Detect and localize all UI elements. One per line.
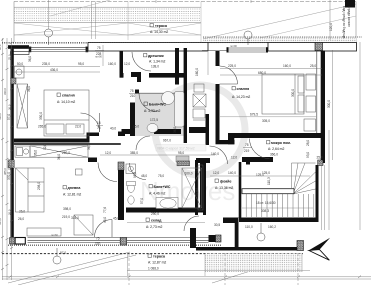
bathroom2 right wall [200, 160, 205, 212]
terrace left edge [13, 2, 15, 43]
svg-text:0804 С-карол 317,59 м2: 0804 С-карол 317,59 м2 [157, 147, 195, 151]
svg-text:590,0: 590,0 [0, 113, 2, 120]
svg-text:160,0: 160,0 [195, 68, 199, 76]
svg-text:140,0: 140,0 [228, 171, 236, 175]
dashed boundary line right section [203, 36, 362, 38]
bath2 door arc [130, 163, 147, 180]
svg-text:12,0: 12,0 [213, 171, 219, 175]
wet room wall corner [246, 161, 250, 165]
svg-text:пот60: пот60 [51, 233, 58, 237]
top wall hollow band left-mid [88, 43, 208, 52]
bottom pier right solid [209, 235, 216, 242]
svg-text:57,0: 57,0 [7, 114, 11, 120]
terrace strip upper line [14, 6, 201, 8]
closet door arc [132, 52, 151, 71]
svg-text:12,0: 12,0 [231, 156, 237, 160]
left outer wall [11, 49, 14, 237]
svg-text:36,0: 36,0 [87, 144, 91, 150]
wardrobe bedroom1 with X [17, 84, 28, 128]
stair railing bar [242, 189, 294, 194]
bottom-left outlined block [15, 238, 25, 245]
hatched column top right [315, 43, 323, 51]
svg-text:210: 210 [130, 94, 136, 98]
svg-text:30,5: 30,5 [214, 223, 220, 227]
bathroom2 / sklad wall [126, 208, 206, 213]
svg-text:298,0: 298,0 [37, 182, 41, 190]
terrace south wall [196, 247, 303, 251]
bedroom2 bottom wall [228, 133, 323, 138]
svg-text:225,0: 225,0 [228, 64, 236, 68]
svg-text:1 088,0: 1 088,0 [148, 267, 159, 271]
step at bedroom2 SW [228, 133, 234, 144]
svg-text:A: 3,33 m2: A: 3,33 m2 [144, 109, 161, 113]
svg-text:75,0: 75,0 [158, 174, 164, 178]
stair hatch pier [318, 160, 323, 166]
bottom wall dotted base line [8, 244, 221, 246]
bathroom1 tub [175, 92, 185, 128]
svg-text:36,0: 36,0 [173, 127, 177, 133]
top stems [48, 0, 50, 29]
foyer label [215, 179, 233, 190]
svg-text:26,0: 26,0 [19, 210, 25, 214]
living label [63, 186, 81, 197]
svg-text:26,0: 26,0 [7, 209, 11, 215]
corridor south wall mid [122, 129, 132, 134]
svg-text:дневна: дневна [68, 186, 82, 190]
svg-text:Баня+WC: Баня+WC [154, 185, 171, 189]
svg-text:385,0: 385,0 [130, 151, 138, 155]
svg-text:25,0: 25,0 [133, 125, 139, 129]
svg-text:93,0: 93,0 [306, 152, 310, 158]
elevator X [198, 165, 203, 210]
svg-text:219,0: 219,0 [62, 215, 70, 219]
svg-text:пот90: пот90 [95, 55, 102, 59]
appliance top-left [15, 66, 25, 78]
svg-text:36,0: 36,0 [57, 154, 61, 160]
left dim rotated numbers [0, 44, 11, 225]
svg-text:60,0: 60,0 [0, 44, 2, 50]
svg-text:436,0: 436,0 [50, 68, 58, 72]
svg-text:308,3: 308,3 [261, 209, 269, 213]
entry threshold [176, 156, 189, 162]
svg-text:45,0: 45,0 [103, 217, 107, 223]
svg-text:219: 219 [244, 149, 250, 153]
bathroom1 wc [147, 124, 158, 133]
svg-text:98,3: 98,3 [133, 172, 137, 178]
top-left solid pier [8, 45, 29, 49]
closet east wall [175, 48, 179, 85]
bottom long lines [2, 276, 371, 278]
shaft hatch left wall lower [8, 160, 14, 168]
stair right wall [316, 165, 319, 222]
top terrace dotted strip right [203, 38, 356, 44]
svg-text:305,0: 305,0 [262, 119, 270, 123]
sklad left vertical [190, 228, 196, 248]
wet room bottom wall [242, 157, 273, 162]
bathroom2 left wall [118, 162, 124, 220]
svg-text:12,0: 12,0 [43, 144, 47, 150]
terrace bottom label [148, 254, 166, 271]
bathroom1 basin [162, 92, 175, 105]
closet west wall [120, 51, 124, 78]
washing machine [126, 164, 136, 174]
entry closet units [193, 84, 206, 120]
living tv stand [27, 228, 61, 236]
svg-text:679,5: 679,5 [250, 113, 258, 117]
kitchen counter X [30, 146, 88, 157]
bath1 label [144, 102, 166, 113]
svg-text:330,0: 330,0 [39, 112, 43, 120]
svg-text:370,0: 370,0 [7, 172, 11, 180]
svg-text:398,0: 398,0 [63, 207, 71, 211]
svg-text:967,0: 967,0 [163, 139, 171, 143]
svg-text:75: 75 [96, 237, 100, 241]
svg-text:склад: склад [151, 219, 162, 223]
svg-text:160,2: 160,2 [268, 225, 276, 229]
sofa living room [16, 168, 45, 212]
sklad door arc [184, 216, 199, 231]
living top wall thin [14, 143, 121, 145]
bottom window right section [127, 237, 209, 242]
bottom dashed boundary [2, 253, 303, 255]
terrace top edge line [14, 1, 356, 3]
svg-text:220: 220 [95, 242, 101, 246]
living corner wall L [88, 158, 97, 163]
svg-text:213: 213 [195, 167, 199, 173]
bathroom1 grey floor [135, 93, 184, 136]
wet room label [267, 141, 291, 157]
svg-text:A: 2,73 m2: A: 2,73 m2 [146, 225, 163, 229]
entry wall vertical [184, 48, 187, 143]
svg-text:22,0: 22,0 [75, 125, 81, 129]
bottom window left section [28, 237, 121, 242]
svg-text:36,0: 36,0 [27, 86, 31, 92]
bottom hatched pier [120, 238, 126, 246]
svg-text:A: 4,46 m2: A: 4,46 m2 [149, 192, 166, 196]
terrace wall hatch pier [297, 241, 304, 251]
svg-text:мокро пом.: мокро пом. [271, 141, 291, 145]
sklad label [146, 218, 163, 229]
bath2 label [149, 185, 171, 196]
svg-text:A: 1,34 m2: A: 1,34 m2 [149, 60, 166, 64]
svg-text:Баня+WC: Баня+WC [149, 103, 166, 107]
svg-text:138,0: 138,0 [151, 65, 159, 69]
bedroom2 left wall upper [216, 51, 220, 66]
right dim vertical [332, 50, 334, 160]
svg-text:260,0: 260,0 [62, 151, 70, 155]
wall stub door-right [118, 132, 125, 137]
kitchen appliances [15, 146, 30, 157]
grid bubble bottom-left [53, 248, 61, 264]
bathroom2 shaft X box [182, 168, 202, 208]
svg-text:100,0: 100,0 [185, 172, 193, 176]
bed bedroom2 [262, 74, 304, 114]
bottom grid dashed continuations [129, 253, 298, 285]
svg-text:160,0: 160,0 [283, 64, 291, 68]
bath1 door arc [136, 136, 150, 150]
svg-text:265,0: 265,0 [38, 125, 46, 129]
svg-text:сграда калкан: сграда калкан [347, 6, 351, 27]
svg-text:315,0: 315,0 [71, 216, 79, 220]
entry wall piece [196, 158, 210, 163]
svg-text:48,0: 48,0 [141, 174, 147, 178]
bath1 north stub L [131, 72, 141, 77]
roof diagonals left terrace [14, 0, 356, 42]
terrace right edge [355, 2, 357, 45]
svg-text:385,0: 385,0 [3, 168, 7, 175]
winder treads fan top right [292, 162, 316, 164]
wall stub right of jog [90, 133, 100, 137]
svg-text:A: 14,23 m2: A: 14,23 m2 [232, 95, 250, 99]
svg-text:75: 75 [245, 143, 249, 147]
unit entrance door arc [210, 146, 228, 164]
bottom terrace border [127, 253, 310, 276]
svg-text:125,0: 125,0 [262, 171, 270, 175]
bedroom2 door arc [220, 66, 238, 84]
living door arc [98, 163, 117, 182]
svg-text:спалня: спалня [62, 94, 75, 98]
svg-text:680,0: 680,0 [258, 71, 266, 75]
svg-text:235,0: 235,0 [42, 62, 50, 66]
bedroom2 label [232, 87, 250, 100]
svg-text:26,0: 26,0 [18, 217, 24, 221]
interior dim row bedroom2 [220, 68, 322, 70]
svg-text:тераса: тераса [155, 24, 168, 28]
interior dim row bedroom1 [14, 66, 100, 68]
svg-text:18 ст. 15,6/30: 18 ст. 15,6/30 [256, 201, 276, 205]
bathroom2 vanity oval [156, 198, 178, 209]
svg-text:330,0: 330,0 [3, 88, 7, 95]
svg-text:366,0: 366,0 [270, 153, 278, 157]
svg-text:36,0: 36,0 [34, 150, 38, 156]
nightstands bedroom2 [304, 74, 316, 131]
svg-text:300,0: 300,0 [327, 100, 331, 108]
bedroom2 right wall inner face [316, 51, 318, 134]
svg-text:36,0: 36,0 [7, 104, 11, 110]
svg-text:фоайе: фоайе [220, 180, 232, 184]
svg-text:вид срещу за бъдеща: вид срещу за бъдеща [342, 6, 346, 39]
terrace lower faint line [14, 34, 201, 36]
svg-text:36,0: 36,0 [28, 56, 32, 62]
svg-text:57,0: 57,0 [140, 198, 144, 204]
svg-text:415,0: 415,0 [0, 218, 2, 225]
watermark circle [155, 85, 245, 175]
corridor south wall right segment A [154, 129, 181, 134]
bath1 left wall [130, 103, 135, 137]
watermark stamp text [156, 145, 206, 152]
vertical dim mid [102, 45, 104, 66]
svg-text:110,3: 110,3 [267, 177, 271, 185]
svg-text:A: 12,87 m2: A: 12,87 m2 [148, 261, 166, 265]
bathroom1 top edge [135, 92, 184, 94]
svg-text:290,0: 290,0 [151, 212, 159, 216]
svg-text:18: 18 [97, 121, 101, 125]
sklad step vertical [235, 218, 239, 249]
left dim verticals [2, 38, 4, 280]
svg-text:95,0: 95,0 [178, 151, 184, 155]
dense dotted boundary line above wall [2, 42, 206, 44]
svg-text:A: 12,81 m2: A: 12,81 m2 [63, 193, 81, 197]
terrace label top [150, 24, 168, 35]
balcony door arc [95, 220, 113, 238]
svg-text:12,0: 12,0 [124, 62, 130, 66]
bedroom2 left wall lower [216, 84, 220, 144]
window top-left [29, 47, 88, 52]
svg-text:A: 14,10 m2: A: 14,10 m2 [57, 100, 75, 104]
bathroom2 shaft hatch [177, 161, 190, 166]
sklad step wall [223, 218, 239, 224]
grid bubble top-mid [244, 31, 252, 45]
svg-text:25,0: 25,0 [310, 64, 316, 68]
svg-text:25,0: 25,0 [7, 54, 11, 60]
closet south wall [149, 73, 185, 78]
left dim tick marks [1, 39, 13, 271]
closet south wall stub west [120, 73, 124, 78]
svg-text:спалня: спалня [237, 87, 250, 91]
bottom diagonals [8, 252, 130, 283]
svg-text:дрешник: дрешник [148, 54, 164, 58]
svg-text:28,0: 28,0 [306, 140, 310, 146]
stairwell left wall [239, 162, 242, 218]
svg-text:120,0: 120,0 [329, 23, 333, 31]
svg-text:12,0: 12,0 [105, 151, 111, 155]
svg-text:12,0: 12,0 [7, 164, 11, 170]
svg-text:25,0: 25,0 [317, 156, 323, 160]
black square top right [345, 0, 355, 8]
svg-text:110,0: 110,0 [245, 225, 253, 229]
entry lower east wall [206, 114, 210, 145]
svg-text:75: 75 [97, 46, 101, 50]
svg-text:300,0: 300,0 [291, 89, 295, 97]
living big table [74, 215, 93, 235]
terrace strip lower line [14, 22, 201, 24]
top wall hollow band right [268, 43, 357, 52]
bottom pier right hatch [216, 235, 222, 242]
bedroom1 label [57, 93, 75, 104]
living small table [76, 169, 83, 175]
bottom-left hatch block [10, 238, 15, 245]
elevator shaft left [195, 160, 198, 215]
big diagonal right terrace [203, 4, 356, 39]
closet label [144, 54, 166, 69]
top terrace dashed-row strip left [14, 9, 201, 21]
bathroom2 left wall hatch top [118, 162, 124, 170]
step under pier [11, 52, 30, 55]
grid bubble bottom-mid [257, 223, 265, 241]
svg-text:75: 75 [97, 126, 101, 130]
svg-text:81,6: 81,6 [195, 190, 199, 196]
svg-text:97,0: 97,0 [60, 251, 66, 255]
bathroom2 sink [128, 196, 134, 204]
stair lower flight treads [245, 194, 247, 217]
bedroom1 bottom wall [14, 139, 87, 143]
window top-mid [202, 43, 268, 53]
svg-text:45,0: 45,0 [113, 217, 119, 221]
elevator shaft right [203, 160, 206, 215]
svg-text:A: 2,64 m2: A: 2,64 m2 [268, 147, 285, 151]
wall jog bedroom1 SE [87, 133, 90, 143]
bottom terrace dotted area [205, 254, 302, 273]
right outer wall [321, 51, 325, 164]
bed bedroom1 [44, 90, 89, 136]
svg-text:40,0: 40,0 [110, 127, 116, 131]
corridor south wall right segment B [189, 127, 209, 133]
bathroom2 wc [128, 184, 135, 193]
grid bubble top-left [45, 29, 53, 45]
svg-text:140,0: 140,0 [211, 152, 219, 156]
shaft hatch left wall [11, 78, 17, 84]
stair bottom wall [239, 218, 319, 223]
corridor wall below bedroom2-left [216, 140, 235, 144]
dims rows living [100, 154, 215, 156]
svg-text:тераса: тераса [153, 255, 166, 259]
wet room door arc [250, 139, 270, 159]
svg-text:95,0: 95,0 [78, 62, 84, 66]
bathroom1 door arc [139, 94, 157, 112]
bedroom1 door arc [81, 113, 100, 132]
svg-text:50,0: 50,0 [17, 62, 23, 66]
svg-text:A: 14,30 m2: A: 14,30 m2 [150, 30, 168, 34]
svg-text:A: 13,36 m2: A: 13,36 m2 [215, 186, 233, 190]
svg-text:75: 75 [130, 89, 134, 93]
svg-text:77,6: 77,6 [103, 207, 107, 213]
svg-text:160,0: 160,0 [108, 62, 116, 66]
svg-text:пот90: пот90 [230, 44, 237, 48]
svg-text:172,5: 172,5 [150, 118, 158, 122]
